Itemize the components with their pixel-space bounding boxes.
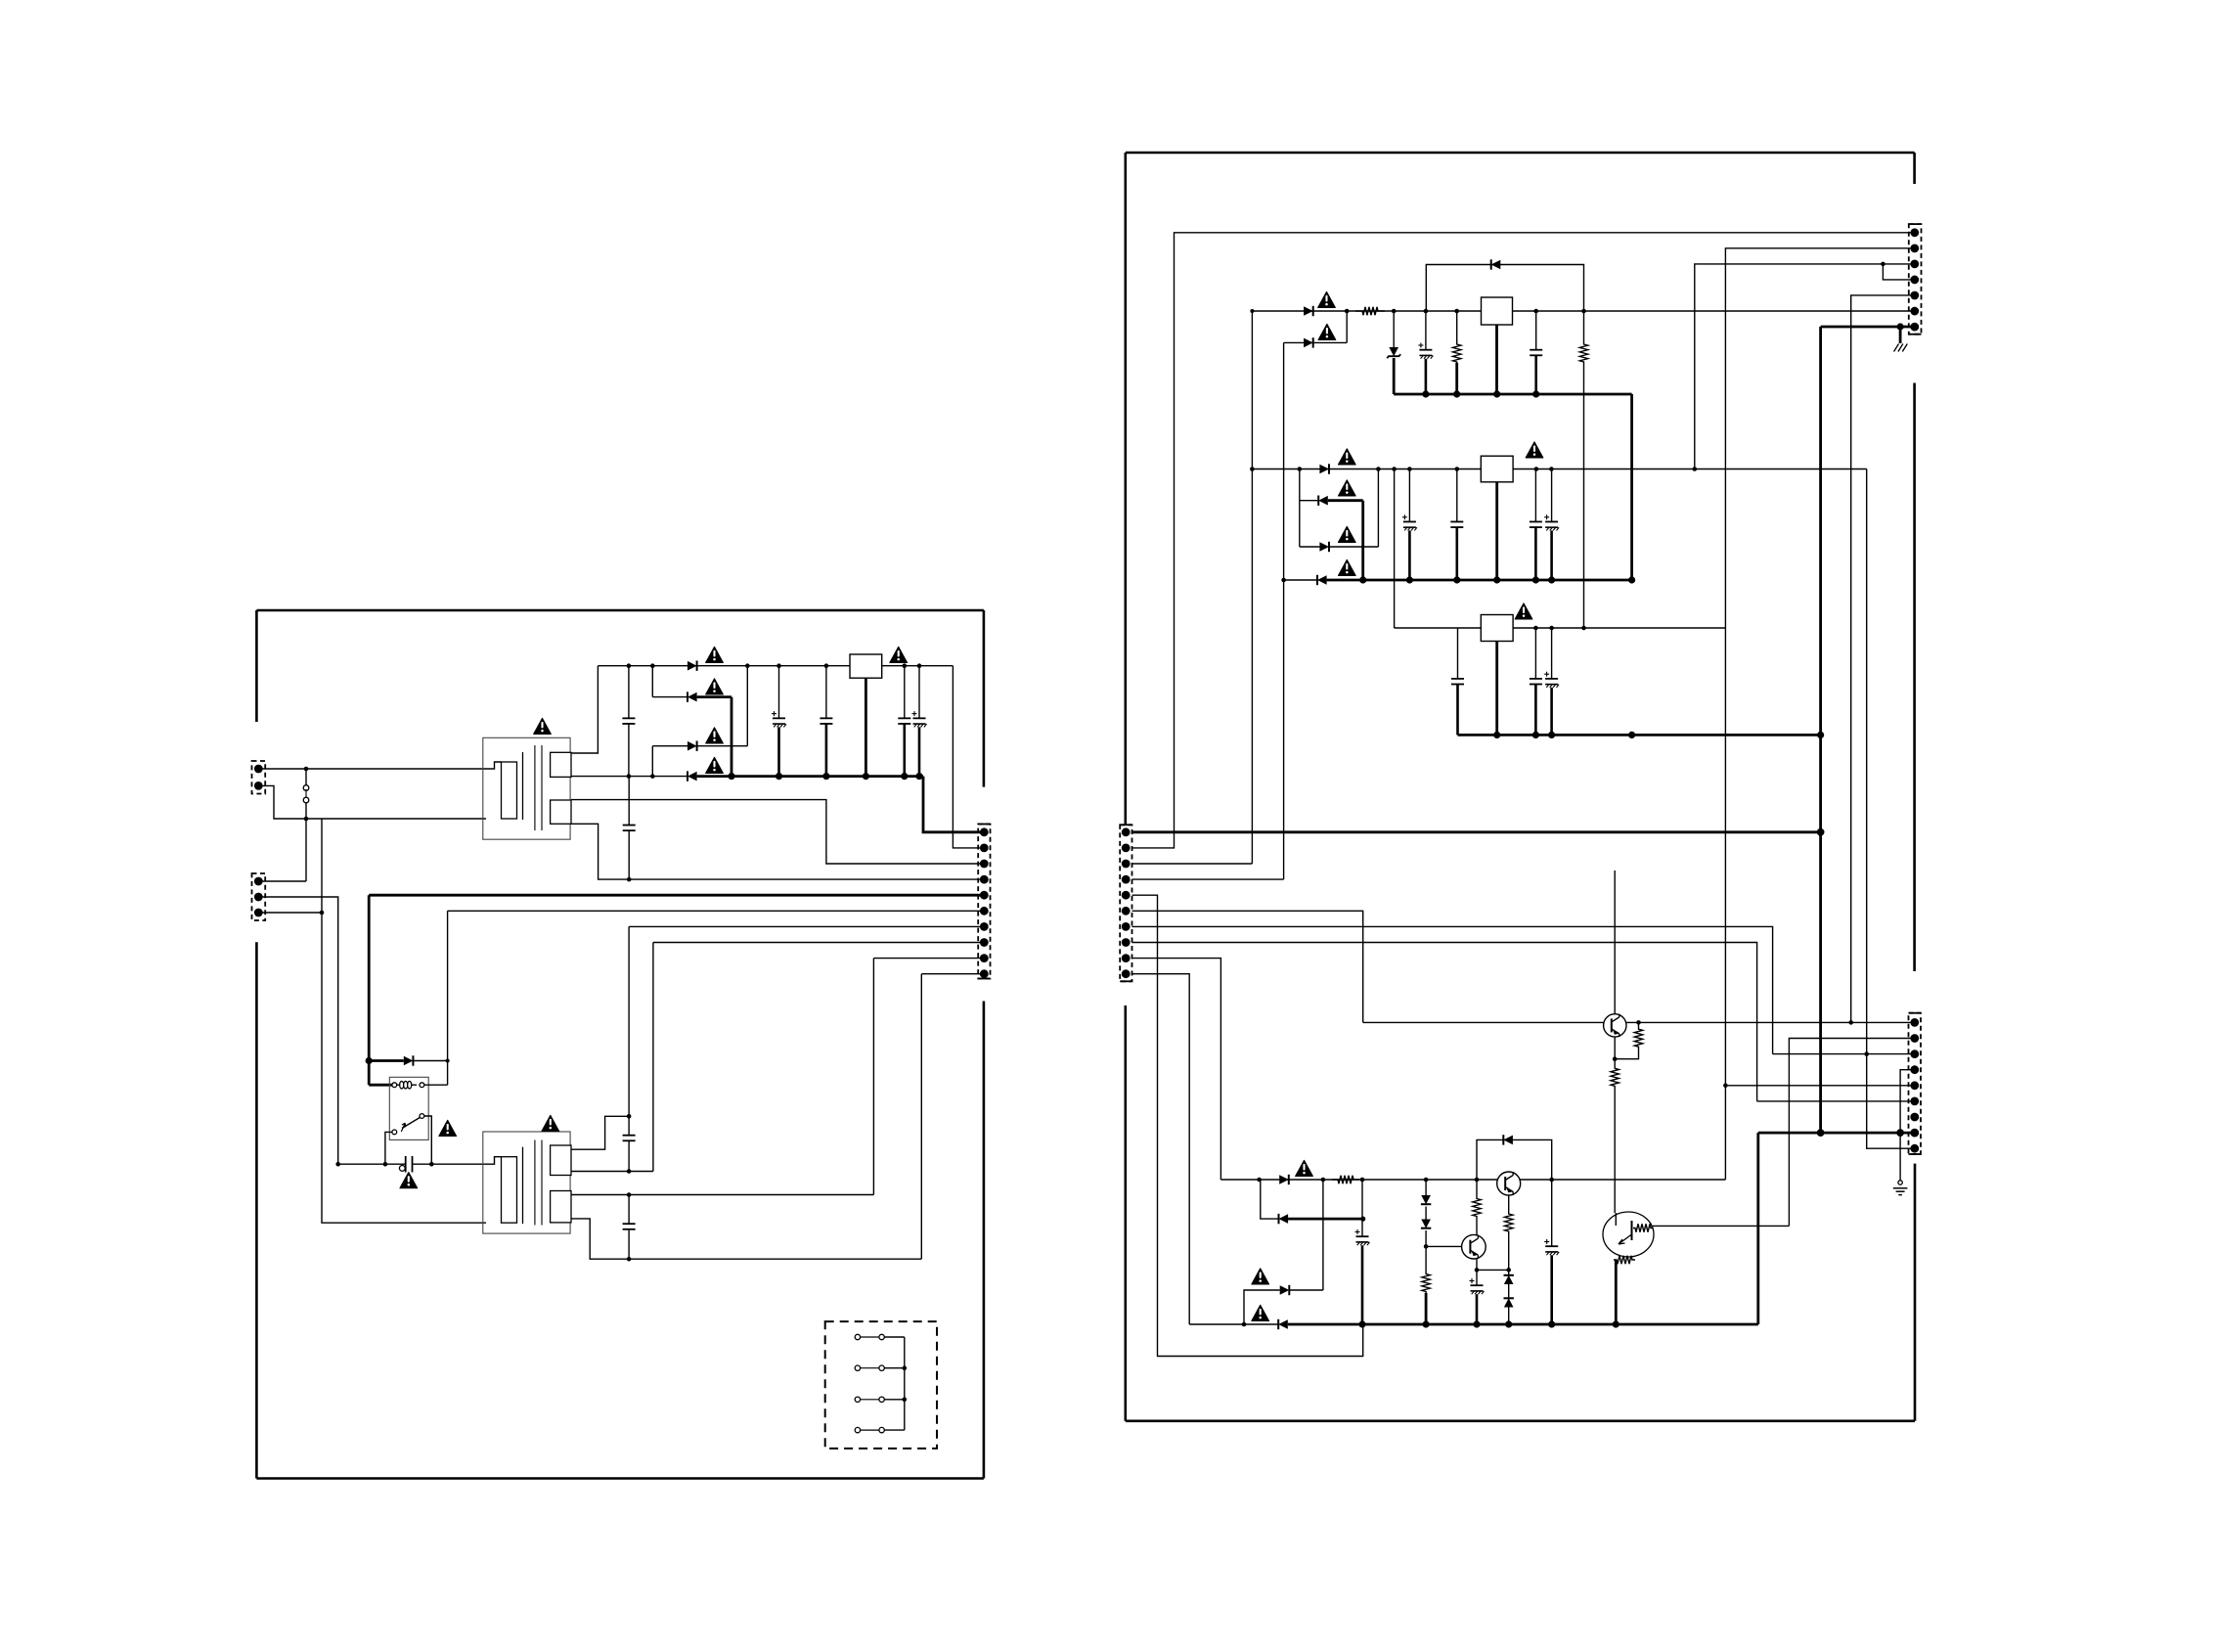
node IC3 out junctions (1533, 626, 1538, 631)
diode D18 on bus4 (1278, 1319, 1288, 1329)
capacitor C11 (1535, 311, 1537, 350)
node CN2.3 junction (320, 911, 325, 915)
thick bus1 (IC1 ground) (1394, 393, 1631, 396)
diode D11 row y=559 (1300, 546, 1320, 548)
thick bus rail2 (697, 775, 923, 778)
wire IC3 output (1513, 627, 1725, 629)
node ground tap (1897, 323, 1904, 330)
connector CN1 (AC inlet, 2-pin) (252, 761, 266, 794)
diode D6 rail A (1304, 306, 1313, 316)
wire Q3 emitter to node (1476, 1259, 1478, 1271)
warning triangle above T1 (534, 718, 552, 734)
wire thick CN4.1 line (1132, 830, 1821, 833)
IC2 regulator box (1481, 456, 1513, 482)
wire net CN5.5 down to CN6.1 line (1851, 295, 1915, 1023)
resistor R8 (row E to Q3 collector) (1476, 1180, 1478, 1197)
wire CN4.7 to CN6.3 (1132, 926, 1773, 1053)
wire CN6.9 to CN6.3 (1867, 1054, 1915, 1149)
node rail2 thin junctions (627, 774, 632, 779)
warning triangle D1 (706, 647, 724, 662)
thick bus3 (1458, 734, 1821, 737)
wire relay coil feed (368, 1061, 371, 1086)
wire T2 sec pin1 to cap rail (571, 1116, 629, 1149)
node T2 rail1 cap junction (627, 1114, 632, 1119)
node cap C6 bottom junction (627, 877, 632, 882)
thick bus4 (1288, 1323, 1758, 1326)
node rail2 thick junctions (728, 773, 734, 780)
node fuse top junction (304, 767, 309, 772)
wire row C to IC3 input (1394, 469, 1396, 629)
warning triangle D11 (1338, 526, 1355, 542)
T1 secondary winding upper (551, 752, 571, 777)
wire CN4.5 loop to bus4 (1132, 895, 1363, 1356)
wire switch to cap row left (385, 1132, 392, 1164)
IC3 regulator box (1481, 615, 1513, 642)
wire CN6.3 line (1773, 1053, 1915, 1055)
connector CN5 (top right, 7-pin) (1909, 224, 1922, 335)
wire CN1.1 to T1 primary top (262, 768, 486, 770)
node junction fuse bottom (304, 817, 309, 822)
wire T2 sec pin2 rail2 (571, 1171, 653, 1173)
diode D4 on rail2 (688, 772, 697, 781)
transformer T2 body (483, 1132, 570, 1233)
earth ground below CN6 (1899, 1133, 1901, 1181)
IC regulator box (left) (850, 654, 882, 678)
wire CN4.8 to CN6.6 (1132, 943, 1757, 1101)
wire CN6.4 stub to ground trunk (1900, 1070, 1915, 1133)
wire CN3.6 to relay node (448, 910, 984, 912)
wire CN2.3 to x=329 (262, 912, 322, 914)
diode D3 row y=762.7 (652, 745, 688, 747)
wire regulator ground pin thick (865, 678, 867, 776)
warning triangle D17 (1252, 1269, 1269, 1284)
warning triangle CX (400, 1173, 418, 1188)
flyback diode D16 loop over Q2 (1477, 1139, 1552, 1180)
transistor Q4 digital (ellipse) (1603, 1212, 1654, 1257)
capacitor C19 electrolytic (row E) (1361, 1180, 1363, 1236)
resistor R1 on rail A (1355, 307, 1385, 315)
node cap row junctions (335, 1162, 340, 1167)
warning triangle D6 (1318, 291, 1336, 307)
diode D10 row y=511.7 (1300, 500, 1318, 502)
wire CN2.2 down to relay cap row (262, 897, 338, 1164)
service connector pin rows (855, 1334, 860, 1339)
node CN6.5 tap (1723, 1084, 1728, 1089)
capacitor C20 electrolytic (Q3 emitter) (1476, 1270, 1478, 1285)
transistor Q3 (1462, 1234, 1486, 1259)
wire T1 sec pin3 to CN3.3 (571, 800, 984, 864)
diode D17 (lower left, to row E riser) (1244, 1290, 1280, 1324)
wire rail1 to CN3.2 (953, 666, 984, 848)
capacitor C3 (825, 666, 827, 719)
transistor Q5 (1604, 1014, 1626, 1037)
node Q5 line junctions (1636, 1020, 1641, 1025)
relay RY1 box (389, 1077, 428, 1139)
capacitor C4 (904, 666, 906, 719)
node rail1 junctions (627, 663, 632, 668)
wire rail A y=318 (1252, 310, 1481, 312)
wire thick CN3.5 to relay (369, 894, 984, 897)
node row C junctions (1250, 467, 1255, 471)
T2 secondary winding lower (551, 1191, 571, 1223)
wire CN3.7 to T2 rail1 (629, 925, 984, 927)
warning triangle D2 (706, 679, 724, 694)
wire Q5 emitter (1614, 1037, 1616, 1059)
resistor R6 row E (1332, 1176, 1359, 1183)
capacitor CX with spark gap (338, 1163, 406, 1165)
T2 primary winding (486, 1157, 502, 1165)
node row E junctions (1257, 1178, 1262, 1183)
flyback diode D8 loop over regulator IC1 (1426, 265, 1583, 312)
relay switch (420, 1114, 424, 1119)
capacitor C21 electrolytic (x=1586.7) (1551, 1180, 1553, 1246)
zener ZD2 ZD3 below Q3/Q2 node (1508, 1270, 1510, 1284)
capacitor C2 electrolytic (778, 666, 780, 719)
T1 secondary winding lower (551, 800, 571, 824)
wire CN1.2 elbow to y=837 rail (262, 785, 486, 819)
wire branch x=329 down to T2 primary bottom (322, 819, 486, 1223)
node row B / bus2 junction (1281, 578, 1286, 583)
wire CN4.9 to row E (1132, 959, 1221, 1180)
wire row E y=1206 (1220, 1179, 1725, 1181)
diode D5 across relay coil (369, 1059, 404, 1062)
fuse F1 (two open circles) (305, 769, 307, 785)
diode D19 row below E (1261, 1180, 1279, 1219)
T1 core (534, 745, 536, 830)
wire CN4.10 to bus4 left (1132, 974, 1190, 1324)
IC3 ground pin (1495, 642, 1498, 736)
wire CN3.8 to T2 rail2 (653, 942, 984, 944)
resistor R5 (Q5 emitter chain) (1611, 1059, 1619, 1095)
warning triangle IC3 (1515, 603, 1532, 619)
wire T2 sec pin4 rail4 (571, 1219, 921, 1259)
resistor R7 below chain (1425, 1246, 1427, 1272)
right block border frame (1126, 152, 1915, 155)
warning triangle IC2 (1526, 442, 1543, 458)
resistor R3 (rail A to IC3 out) (1583, 311, 1585, 343)
capacitor C12 electrolytic (1408, 469, 1410, 522)
wire CN6.2 to Q6 base (1789, 1039, 1914, 1227)
thick bus2 (1327, 579, 1632, 582)
T2 secondary winding upper (551, 1145, 571, 1176)
wire switch to cap row right (424, 1116, 432, 1164)
wire thick CN5.7 ground (1821, 326, 1915, 329)
service connector dashed box (825, 1321, 937, 1449)
connector CN4 (right block left, 10-pin) (1120, 825, 1131, 981)
transistor Q2 (on row E) (1497, 1172, 1521, 1195)
resistor R9 (Q2 emitter) (1508, 1195, 1510, 1213)
capacitor C17 (1534, 628, 1536, 679)
resistor R2 (1456, 311, 1458, 343)
warning triangle D9 (1338, 449, 1355, 465)
capacitor C10 electrolytic (1425, 311, 1427, 350)
wire T1 sec pin1 up to +rail (571, 666, 598, 753)
wire rail A left drop to CN4.3 (1250, 309, 1254, 313)
wire net CN5.3 to row C (1695, 264, 1915, 469)
warning triangle D3 (706, 728, 724, 743)
diode D9 row C (1319, 465, 1329, 474)
thick ground riser from bus4 (1756, 1133, 1759, 1324)
wire CN3.10 to T2 rail4 (921, 973, 984, 975)
diode chain D14 D15 (1425, 1180, 1427, 1195)
warning triangle relay (439, 1120, 457, 1136)
wire Q5 base line y=1045.4 (1363, 1021, 1915, 1023)
capacitor C7 (T2 top) (628, 1116, 630, 1135)
capacitor C13 (1456, 469, 1458, 522)
node bus4 left junction (1242, 1322, 1247, 1327)
capacitor C6 (628, 777, 630, 826)
warning triangle D10 (1338, 480, 1355, 496)
resistor R4 (Q5 b-e) (1634, 1022, 1642, 1053)
ground symbol (chassis) (1894, 344, 1899, 352)
wire CN4.6 to Q5 base line (1132, 911, 1363, 1022)
wire thick ground trunk x=1861.6 (1819, 327, 1822, 1133)
node CN6.3/9 junction (1864, 1051, 1869, 1056)
node diode chain to Q3 base (1424, 1244, 1429, 1249)
capacitor C15 electrolytic (1551, 469, 1553, 522)
wire CN3.9 to T2 rail3 (873, 958, 984, 960)
capacitor C1 (628, 666, 630, 719)
thick ground to CN6.8 (1758, 1132, 1915, 1135)
zener ZD1 (1393, 311, 1395, 347)
warning triangle D4 (706, 757, 724, 773)
node rail A junctions (1345, 309, 1350, 314)
diode D7 row B (1284, 341, 1305, 343)
capacitor C14 (1534, 469, 1536, 522)
warning triangle D13 (1296, 1160, 1313, 1176)
warning triangle D18 (1252, 1305, 1269, 1320)
connector CN6 (bottom right, 9-pin) (1909, 1013, 1922, 1154)
T1 primary winding (486, 762, 502, 769)
wire T1 sec pin4 to CN3.4 (571, 824, 629, 879)
wire row C drop to CN6.3 junction (1866, 469, 1868, 1054)
relay coil (392, 1083, 397, 1088)
capacitor C18 electrolytic (1551, 628, 1553, 679)
warning triangle D12 (1338, 559, 1355, 575)
diode D2 row y=712.6 (652, 696, 688, 698)
transformer T1 body (483, 737, 570, 839)
warning triangle regulator (890, 647, 908, 662)
wire bus4 left thin (1189, 1323, 1278, 1325)
warning triangle D7 (1318, 324, 1336, 339)
wire net CN5.2 vertical (1725, 248, 1914, 1180)
warning triangle above T2 (542, 1115, 559, 1131)
node relay feed junction (366, 1057, 373, 1064)
node CN5.4 stub junction (1881, 262, 1885, 267)
wire Q5 collector stub (1614, 871, 1616, 1014)
node Q5 emitter junction (1613, 1056, 1618, 1061)
capacitor C5 electrolytic (918, 666, 920, 719)
wire row C y=479.5 (1252, 469, 1481, 470)
wire T1 sec pin2 rail2 (571, 776, 688, 778)
wire net CN5.1 loop to CN4.2 (1132, 233, 1915, 848)
T2 core (534, 1140, 536, 1226)
IC1 regulator box (1482, 297, 1513, 325)
capacitor C16 (1457, 628, 1459, 679)
left block border frame (256, 609, 984, 612)
wire +rail y=680.7 (598, 665, 850, 667)
capacitor C8 (T2 bottom) (628, 1195, 630, 1225)
wire fuse bottom to CN2.1 (305, 819, 307, 881)
wire T2 sec pin3 rail3 (571, 1194, 873, 1196)
connector CN3 (left block, 10-pin) (978, 825, 990, 979)
diode D13 row E (1279, 1175, 1289, 1184)
diode D1 on rail1 (688, 661, 697, 671)
wire row B drop to CN4.4 (1283, 342, 1285, 879)
connector CN2 (3-pin) (252, 873, 266, 920)
diode D12 bus2 row (1284, 579, 1317, 581)
